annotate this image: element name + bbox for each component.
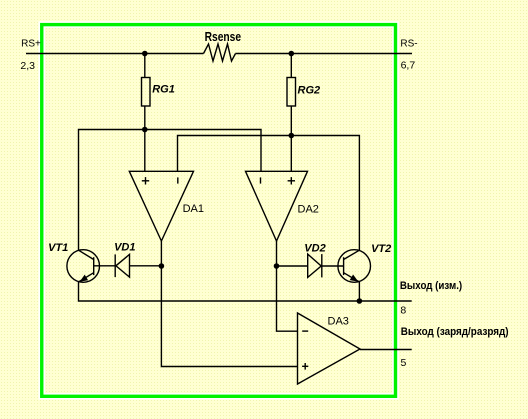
wire VT1 emitter down to output rail	[79, 282, 412, 301]
wire node B down to DA2 plus input	[290, 136, 292, 172]
node A junction	[142, 127, 148, 133]
wire RG2 to node B	[290, 106, 292, 136]
svg-text:RS+: RS+	[21, 39, 41, 50]
wire DA1 output down to VD1 node	[160, 241, 162, 266]
resistor Rsense	[204, 44, 236, 61]
wire RG1 to node A	[144, 106, 146, 130]
wire node B left then down to DA1 inverting input	[178, 136, 292, 172]
svg-text:5: 5	[401, 357, 407, 369]
node top-left junction	[142, 51, 148, 57]
wire top junction to RG2	[290, 54, 292, 78]
node DA1 output junction	[159, 263, 165, 269]
wire VT2 emitter down to output rail	[358, 282, 360, 301]
svg-text:VT2: VT2	[371, 243, 391, 255]
wire node A left then down to VT1 collector	[79, 130, 145, 251]
wire top junction to RG1	[144, 54, 146, 78]
svg-text:Rsense: Rsense	[205, 29, 242, 44]
op-amp DA2	[246, 171, 308, 241]
svg-text:RG2: RG2	[298, 84, 321, 96]
svg-text:6,7: 6,7	[401, 60, 416, 72]
op-amp DA1	[129, 171, 193, 241]
node VT2 emitter on output rail	[357, 298, 363, 304]
node top-right junction	[289, 51, 295, 57]
svg-text:RG1: RG1	[152, 84, 175, 96]
diode VD1	[94, 254, 162, 277]
svg-text:VD2: VD2	[304, 242, 325, 254]
wire DA3 output to pin 5	[360, 349, 412, 351]
resistor RG1	[142, 78, 151, 107]
svg-text:DA2: DA2	[298, 204, 319, 216]
op-amp DA3	[298, 313, 361, 384]
svg-text:Выход (заряд/разряд): Выход (заряд/разряд)	[401, 326, 509, 338]
svg-text:VT1: VT1	[48, 242, 68, 254]
wire top rail RS+ to Rsense left	[26, 53, 204, 55]
wire node A down to DA1 plus input	[144, 130, 146, 172]
wire DA1 output node down then right to DA3 plus input	[161, 266, 297, 367]
node B junction	[289, 133, 295, 139]
svg-text:DA1: DA1	[183, 203, 204, 215]
wire node B right then down to VT2 collector	[291, 136, 359, 251]
wire top rail Rsense right to RS-	[236, 53, 413, 55]
node DA2 output junction	[274, 263, 280, 269]
resistor RG2	[287, 78, 296, 107]
transistor VT1	[67, 250, 100, 283]
wire DA2 output node down then right to DA3 minus input	[277, 266, 298, 331]
svg-text:2,3: 2,3	[20, 60, 35, 72]
transistor VT2	[338, 250, 371, 283]
svg-text:VD1: VD1	[114, 242, 135, 254]
svg-text:DA3: DA3	[328, 316, 349, 328]
green frame	[42, 25, 396, 397]
svg-text:Выход (изм.): Выход (изм.)	[400, 280, 463, 292]
wire DA2 output down to VD2 node	[276, 241, 278, 266]
wire node A right then down to DA2 inverting input	[145, 130, 261, 172]
diode VD2	[277, 254, 344, 277]
svg-text:RS-: RS-	[400, 38, 417, 49]
svg-text:8: 8	[400, 304, 406, 316]
